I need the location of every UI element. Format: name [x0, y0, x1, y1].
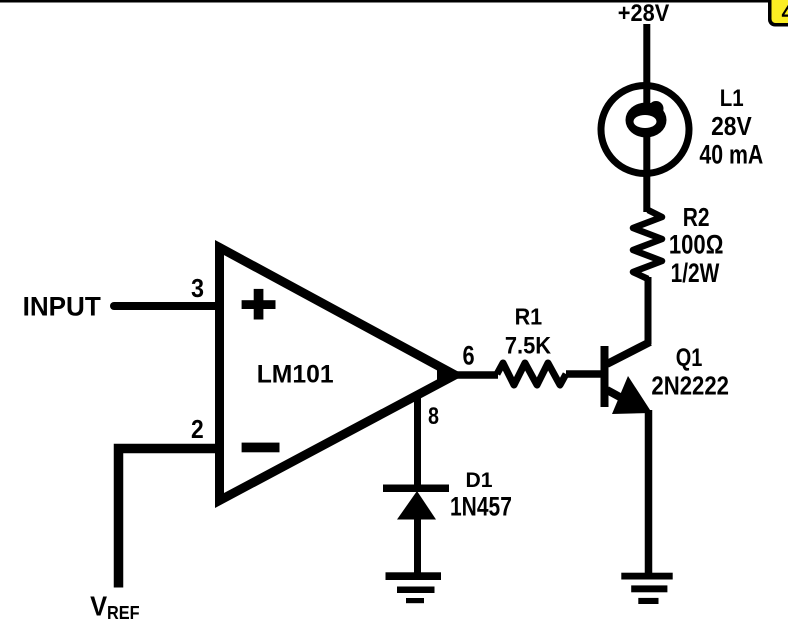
svg-text:INPUT: INPUT [23, 292, 102, 322]
svg-text:2N2222: 2N2222 [651, 370, 729, 400]
svg-text:8: 8 [428, 403, 439, 430]
svg-text:R2: R2 [683, 204, 710, 232]
svg-text:2: 2 [191, 416, 204, 444]
svg-text:L1: L1 [720, 85, 744, 112]
svg-text:1N457: 1N457 [450, 492, 512, 522]
svg-text:+28V: +28V [618, 0, 670, 27]
svg-text:4: 4 [782, 0, 788, 25]
svg-text:6: 6 [463, 341, 475, 371]
svg-text:V: V [90, 591, 107, 620]
svg-text:40 mA: 40 mA [699, 140, 763, 170]
svg-text:REF: REF [107, 603, 140, 620]
svg-text:D1: D1 [466, 468, 493, 492]
svg-text:3: 3 [191, 273, 204, 303]
svg-text:LM101: LM101 [257, 361, 334, 389]
svg-text:100Ω: 100Ω [669, 230, 724, 260]
svg-text:28V: 28V [711, 113, 752, 141]
svg-text:Q1: Q1 [676, 344, 703, 372]
svg-text:1/2W: 1/2W [671, 258, 720, 288]
svg-text:R1: R1 [515, 303, 543, 329]
svg-text:7.5K: 7.5K [505, 333, 552, 360]
